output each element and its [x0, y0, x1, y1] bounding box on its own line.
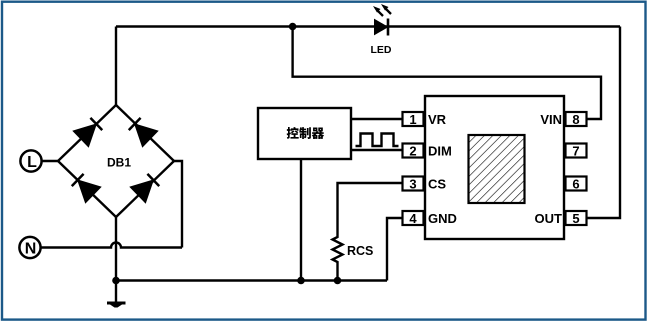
wire: LED cathode down right side to OUT	[587, 27, 621, 219]
label 控制器 (controller)	[287, 127, 324, 139]
svg-text:4: 4	[409, 211, 417, 226]
wire: top rail	[116, 25, 620, 27]
diode D1 upper-left arm	[73, 116, 104, 147]
svg-text:2: 2	[409, 143, 416, 158]
wire: ground rail up to GND pin 4	[387, 218, 403, 281]
svg-text:N: N	[25, 241, 37, 258]
terminal N	[19, 237, 40, 258]
pin 4 box	[403, 211, 424, 226]
ground symbol stem	[115, 281, 117, 303]
svg-text:RCS: RCS	[347, 244, 373, 258]
wire: bridge right vertex to N branch	[174, 161, 182, 248]
pin 7 box	[566, 143, 587, 158]
PWM waveform symbol	[356, 134, 399, 147]
svg-text:3: 3	[409, 176, 416, 191]
svg-text:VIN: VIN	[540, 112, 562, 127]
pin 6 box	[566, 176, 587, 191]
svg-text:OUT: OUT	[535, 211, 563, 226]
svg-text:DB1: DB1	[107, 156, 131, 170]
controller box	[258, 108, 351, 159]
diode D2 upper-right arm	[127, 116, 158, 147]
pin 1 box	[403, 112, 424, 127]
LED D5	[373, 4, 391, 36]
ground rail	[116, 279, 387, 281]
svg-text:7: 7	[572, 143, 579, 158]
svg-text:1: 1	[409, 112, 416, 127]
svg-text:5: 5	[572, 211, 579, 226]
svg-text:VR: VR	[428, 112, 447, 127]
svg-text:L: L	[27, 154, 37, 171]
node: top rail / VIN branch junction	[289, 23, 297, 31]
svg-text:CS: CS	[428, 176, 446, 191]
node: controller ground junction	[297, 277, 305, 285]
resistor RCS zigzag	[333, 235, 343, 263]
terminal L	[20, 150, 41, 171]
bridge rectifier DB1	[58, 105, 174, 217]
wire: controller down to ground rail	[300, 159, 302, 281]
pin 8 box	[566, 112, 587, 127]
svg-text:6: 6	[572, 176, 579, 191]
node: bridge ground junction	[112, 277, 120, 285]
node: RCS ground junction	[334, 277, 342, 285]
svg-text:LED: LED	[371, 44, 392, 56]
wire: RCS to ground rail	[336, 263, 338, 281]
svg-text:DIM: DIM	[428, 143, 452, 158]
wire: CS pin 3 branch	[338, 183, 403, 235]
pin 5 box	[566, 211, 587, 226]
wire: N terminal with hop over ground wire	[41, 243, 182, 248]
wire: L terminal to bridge left vertex	[42, 160, 58, 162]
svg-text:GND: GND	[428, 211, 457, 226]
ground symbol	[107, 303, 126, 308]
pin 3 box	[403, 176, 424, 191]
wire: controller to DIM pin 2	[351, 149, 403, 151]
wire: controller to VR pin 1	[351, 118, 403, 120]
svg-text:8: 8	[572, 112, 579, 127]
pin 2 box	[403, 143, 424, 158]
IC U1 body	[425, 96, 564, 239]
wire: bridge - output down to ground rail	[115, 217, 117, 281]
diode D4 lower-right arm	[130, 172, 161, 203]
wire: VIN branch	[293, 27, 601, 120]
wire: bridge + output up to top rail	[115, 27, 117, 106]
diode D3 lower-left arm	[70, 172, 101, 203]
